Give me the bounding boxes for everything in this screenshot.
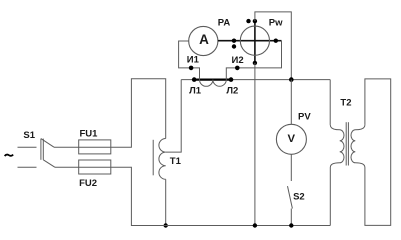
svg-text:A: A — [199, 32, 209, 47]
T1 core bar — [152, 140, 154, 176]
svg-text:FU2: FU2 — [79, 178, 97, 189]
wire T2 secondary loop — [365, 79, 391, 226]
node И2 — [235, 66, 240, 71]
wattmeter Pw circle — [240, 26, 269, 55]
wattmeter right terminal wire — [269, 40, 281, 42]
source symbol ~ — [5, 155, 14, 156]
fuse FU1 — [79, 140, 111, 154]
switch S1 lower fixed contact — [18, 166, 37, 168]
wire PV to S2 — [290, 154, 292, 181]
switch S1 upper blade — [41, 139, 54, 148]
svg-text:PA: PA — [218, 17, 231, 28]
svg-text:V: V — [288, 133, 296, 145]
node Pw bottom terminal — [253, 61, 257, 65]
svg-text:T2: T2 — [340, 97, 351, 108]
bottom rail — [131, 225, 330, 227]
switch S1 mechanical link — [40, 139, 42, 160]
switch S1 upper fixed contact — [18, 146, 37, 148]
voltmeter PV circle — [276, 124, 306, 154]
svg-text:T1: T1 — [170, 156, 182, 167]
wattmeter current path through circle (bold) — [240, 40, 269, 42]
transformer T2 secondary winding — [351, 125, 365, 168]
svg-text:S1: S1 — [23, 130, 35, 141]
switch S2 blade — [288, 186, 293, 208]
svg-text:И1: И1 — [187, 55, 200, 66]
wire T1 tap — [166, 80, 182, 153]
wire S1 to FU1 — [54, 146, 79, 148]
polarity marker dot top — [246, 19, 250, 23]
node И1 — [189, 66, 194, 71]
wire junction to PV — [290, 80, 292, 125]
polarity marker dot left — [232, 44, 236, 48]
fuse FU2 — [79, 160, 111, 174]
wire FU1 to top rail — [111, 79, 166, 147]
svg-text:Pw: Pw — [269, 18, 283, 29]
wire T2 primary bottom to bottom rail — [329, 168, 331, 226]
svg-text:И2: И2 — [232, 55, 244, 66]
output rail (CT line) — [181, 79, 330, 81]
node Pw right terminal — [274, 39, 278, 43]
node Л2 — [229, 77, 234, 82]
svg-text:PV: PV — [298, 112, 311, 123]
wire rail to T2 primary — [329, 80, 331, 125]
T2 core — [345, 122, 347, 165]
svg-text:Л2: Л2 — [226, 85, 238, 96]
node Pw bottom rail junction — [253, 223, 257, 227]
transformer T2 primary winding — [330, 125, 344, 168]
switch S1 lower blade — [43, 160, 55, 168]
svg-text:S2: S2 — [293, 191, 305, 202]
wire CT secondary И1 to ammeter — [179, 41, 200, 80]
current transformer primary Л1-Л2 — [194, 78, 231, 80]
wire Pw voltage coil bottom to bottom rail — [254, 63, 256, 226]
wire И2 run — [226, 41, 281, 80]
wire S2 to bottom rail — [290, 209, 292, 226]
node S2 bottom — [289, 223, 293, 227]
wire S1 to FU2 — [55, 166, 79, 168]
node Pw top terminal — [253, 19, 257, 23]
node Л1 — [192, 77, 197, 82]
wire FU2 to bottom rail — [111, 167, 166, 225]
node Pw left terminal — [232, 39, 236, 43]
node T1 bottom — [164, 223, 168, 227]
wire ammeter to wattmeter current coil (bold) — [218, 40, 241, 42]
svg-text:Л1: Л1 — [189, 86, 202, 97]
autotransformer T1 winding — [159, 139, 166, 180]
current transformer secondary winding — [200, 80, 227, 87]
svg-text:FU1: FU1 — [80, 129, 99, 140]
wire Pw voltage coil top loop — [255, 12, 291, 80]
wattmeter voltage path vertical — [254, 21, 256, 63]
wire T1 bottom to bottom rail — [165, 179, 167, 225]
node PV branch junction — [289, 77, 294, 82]
ammeter PA circle — [189, 26, 218, 55]
